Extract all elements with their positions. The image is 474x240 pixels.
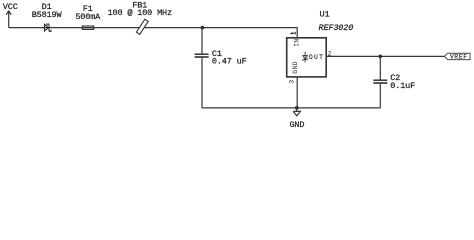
svg-text:VREF: VREF — [450, 54, 468, 61]
svg-text:500mA: 500mA — [75, 12, 101, 22]
svg-text:2: 2 — [328, 50, 332, 57]
svg-text:100 @ 100 MHz: 100 @ 100 MHz — [108, 8, 172, 18]
svg-text:0.1uF: 0.1uF — [390, 81, 415, 91]
svg-text:GND: GND — [292, 61, 299, 74]
svg-text:REF3020: REF3020 — [319, 23, 354, 33]
svg-text:GND: GND — [289, 120, 304, 130]
svg-text:OUT: OUT — [309, 54, 324, 61]
svg-text:U1: U1 — [320, 9, 330, 19]
svg-text:VCC: VCC — [3, 2, 18, 12]
svg-text:0.47 uF: 0.47 uF — [212, 56, 247, 66]
svg-text:3: 3 — [288, 80, 295, 84]
svg-text:B5819W: B5819W — [32, 10, 63, 20]
svg-text:IN: IN — [293, 38, 300, 46]
